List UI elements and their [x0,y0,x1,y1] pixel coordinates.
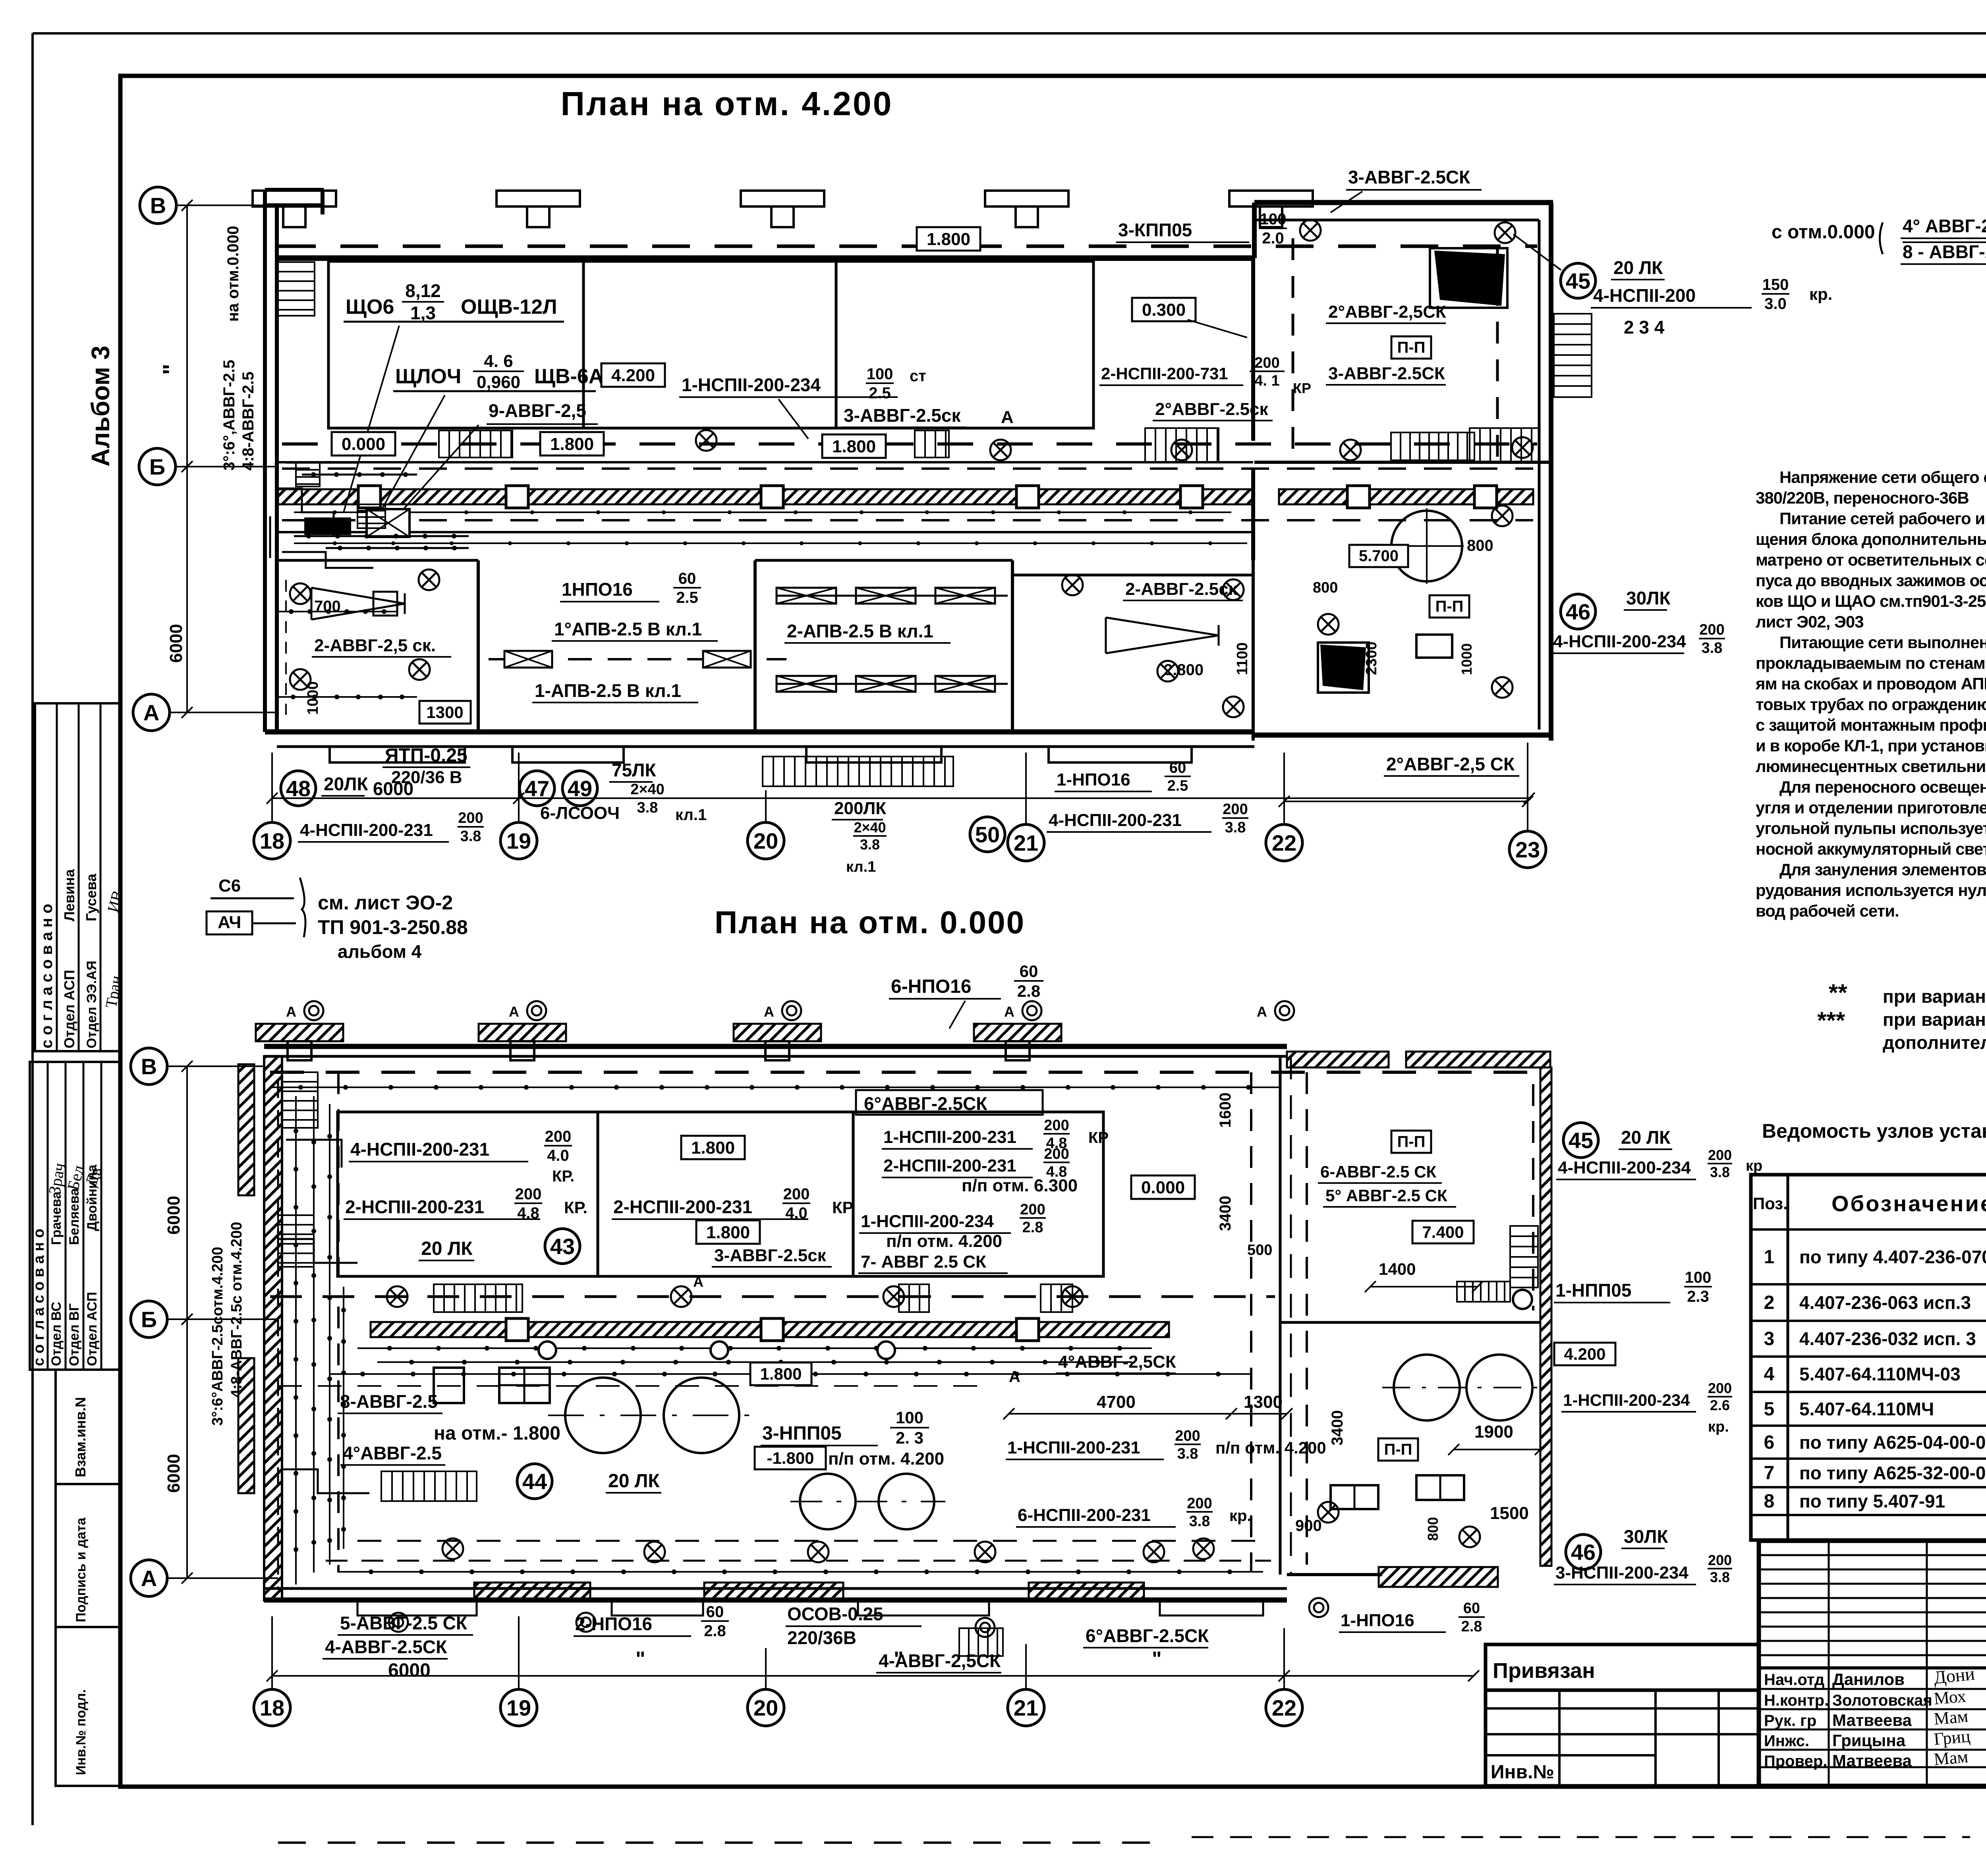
svg-text:1-НСПII-200-234: 1-НСПII-200-234 [682,374,821,395]
svg-text:Грачева: Грачева [49,1191,64,1245]
svg-text:200: 200 [1044,1117,1069,1134]
plan 0.000: small grille bottom [959,1628,1003,1656]
axis circle А (plan 4.200) [133,694,170,731]
svg-text:5.407-64.110МЧ-03: 5.407-64.110МЧ-03 [1799,1364,1961,1384]
svg-text:1000: 1000 [305,681,321,715]
svg-text:см. лист ЭО-2: см. лист ЭО-2 [318,892,453,914]
svg-text:6000: 6000 [164,1454,184,1493]
привязан box [1486,1644,1759,1690]
room45 inner dashed partition [1293,238,1497,461]
label 6°АВВГ-2.5СК (top run) [856,1090,1043,1115]
axis circle 46 label [1561,594,1596,629]
svg-text:3°:6°,АВВГ-2.5: 3°:6°,АВВГ-2.5 [220,360,238,471]
svg-text:АЧ: АЧ [218,913,241,932]
svg-text:46: 46 [1571,1540,1596,1565]
svg-text:Взам.инв.N: Взам.инв.N [72,1397,89,1477]
svg-text:2°АВВГ-2,5СК: 2°АВВГ-2,5СК [1328,302,1446,322]
label 9-АВВГ-2,5 ск [487,400,598,446]
label ЩО6 8,12/1,3 ОЩВ-12Л [344,280,564,323]
svg-text:с отм.0.000: с отм.0.000 [1772,222,1875,243]
svg-text:1-НСПII-200-231: 1-НСПII-200-231 [1007,1438,1140,1457]
svg-text:3-АВВГ-2.5ск: 3-АВВГ-2.5ск [844,405,961,426]
svg-text:2-НСПII-200-231: 2-НСПII-200-231 [345,1197,484,1217]
svg-text:3400: 3400 [1217,1196,1234,1231]
plan 0.000 wing: dashed inner [1307,1072,1533,1565]
svg-text:кл.1: кл.1 [675,806,707,824]
rotated feeder labels at left wall [220,226,257,471]
svg-text:А: А [1004,1004,1014,1020]
plan 0.000: top dashed wiring run [270,1072,1537,1090]
svg-text:ОЩВ-12Л: ОЩВ-12Л [461,295,557,318]
boxed 4.200 (wing) [1554,1343,1615,1365]
label 75ЛК 2x40 [609,760,665,816]
svg-text:кр.: кр. [1809,285,1832,303]
svg-text:КР: КР [1293,380,1311,396]
svg-text:1000: 1000 [1459,643,1475,675]
label 1-НСПII-200-231 200/4.8 КР (43r) [882,1117,1109,1152]
axis circle 22 (plan 4.200) [1266,824,1302,861]
plan 0.000: mid grilles [434,1284,1072,1312]
svg-text:45: 45 [1569,1128,1593,1153]
svg-text:Нач.отд: Нач.отд [1764,1671,1824,1689]
svg-text:2×40: 2×40 [854,819,886,836]
room 51 lamps [1062,575,1244,717]
svg-text:900: 900 [1295,1517,1322,1534]
svg-text:200: 200 [1254,355,1279,371]
svg-text:4:8-АВВГ-2.5с отм.4.200: 4:8-АВВГ-2.5с отм.4.200 [228,1222,245,1398]
svg-text:60: 60 [1169,760,1186,776]
stair grille right wing [1470,428,1539,462]
svg-text:С6: С6 [218,876,241,896]
svg-text:4-НСПII-200: 4-НСПII-200 [1593,285,1696,306]
wing divider mid [1280,1321,1540,1324]
svg-text:Б: Б [141,1307,157,1332]
svg-text:100: 100 [1260,210,1287,228]
margin lower rotated: Отдел АСП Двойнина [85,1164,100,1366]
привязан grid [1486,1690,1759,1786]
svg-text:2 3 4: 2 3 4 [1624,317,1665,338]
svg-text:5.407-64.110МЧ: 5.407-64.110МЧ [1799,1399,1934,1419]
svg-text:46: 46 [1566,599,1590,624]
svg-text:4-НСПII-200-234: 4-НСПII-200-234 [1558,1158,1691,1177]
svg-text:КР: КР [1088,1129,1109,1146]
axis leader А [170,712,278,713]
plan 0.000: vertical dim 6000 x2 [164,1061,193,1584]
svg-text:угольной пульпы используется п: угольной пульпы используется пере- [1756,819,1986,838]
label 4-НСПII-200-231 200/3.8 (left) [298,810,484,845]
axis circle В (plan 4.200) [140,187,176,224]
svg-text:2.3: 2.3 [1687,1288,1709,1305]
svg-text:2°АВВГ-2,5 СК: 2°АВВГ-2,5 СК [1386,754,1515,774]
svg-text:1400: 1400 [1379,1260,1416,1278]
svg-text:3.0: 3.0 [1764,295,1787,313]
axis circle 49 [562,771,597,806]
boxed П-П (wing lower) [1378,1438,1418,1461]
svg-text:1-НСПII-200-234: 1-НСПII-200-234 [861,1212,994,1231]
svg-text:Гриц: Гриц [1933,1726,1971,1749]
svg-text:3.8: 3.8 [460,828,481,845]
svg-text:8 - АВВГ-2.5: 8 - АВВГ-2.5 [1903,241,1986,262]
svg-text:700: 700 [314,598,341,615]
svg-text:П-П: П-П [1435,598,1464,615]
plan 4.200: small porch rects below wall [330,747,1192,762]
svg-text:19: 19 [506,1695,531,1720]
svg-text:2.0: 2.0 [1262,230,1284,247]
svg-text:18: 18 [260,1695,284,1720]
boxed 7.400 [1412,1221,1474,1243]
svg-text:19: 19 [506,828,531,853]
svg-text:75ЛК: 75ЛК [612,760,656,780]
svg-text:49: 49 [568,776,592,801]
svg-text:3°:6°АВВГ-2.5сотм.4.200: 3°:6°АВВГ-2.5сотм.4.200 [209,1247,226,1426]
svg-text:8: 8 [1764,1491,1775,1512]
svg-text:0,960: 0,960 [477,372,520,392]
plan 0.000: top wall [264,1046,1287,1056]
svg-text:2-АПВ-2.5 В кл.1: 2-АПВ-2.5 В кл.1 [787,621,933,641]
svg-text:6: 6 [1764,1432,1775,1453]
svg-text:кр.: кр. [1229,1507,1252,1525]
svg-text:Для переносного освещения в ск: Для переносного освещения в складе [1779,778,1986,796]
svg-text:3.8: 3.8 [1710,1569,1730,1585]
svg-text:Для зануления элементов электр: Для зануления элементов электробо [1779,860,1986,879]
room46 tank circle [1391,511,1462,581]
plan 0.000: lower-left grille [381,1471,477,1501]
svg-text:20: 20 [753,1695,778,1720]
plan 4.200: room 48 lamps [290,569,439,690]
svg-text:ЯТП-0.25: ЯТП-0.25 [385,745,468,766]
svg-text:8-АВВГ-2.5: 8-АВВГ-2.5 [340,1391,438,1412]
svg-text:В: В [150,193,166,218]
svg-text:20 ЛК: 20 ЛК [421,1238,473,1259]
svg-text:2-АВВГ-2.5ск: 2-АВВГ-2.5ск [1125,579,1238,599]
svg-text:1.800: 1.800 [691,1138,735,1158]
svg-text:А: А [141,1566,157,1591]
svg-text:люминесцентных светильников.: люминесцентных светильников. [1756,757,1986,776]
svg-text:Альбом 3: Альбом 3 [86,345,115,467]
svg-text:Привязан: Привязан [1493,1659,1595,1683]
svg-text:1600: 1600 [1217,1092,1234,1128]
svg-text:200: 200 [1708,1552,1732,1568]
wing lower crates [1331,1475,1464,1509]
svg-text:800: 800 [1467,537,1493,554]
svg-text:с о г л а с о в а н о: с о г л а с о в а н о [31,1229,47,1366]
svg-text:3.8: 3.8 [1177,1446,1198,1462]
svg-text:Мам: Мам [1933,1706,1969,1729]
svg-text:3-АВВГ-2.5СК: 3-АВВГ-2.5СК [1328,364,1445,383]
svg-text:рудования используется нулевой: рудования используется нулевой про- [1756,881,1986,899]
svg-text:2. 3: 2. 3 [896,1428,923,1447]
room45 lamps [1300,220,1533,458]
plan 0.000: rotated feeder labels [209,1222,245,1426]
axis circle 20 (plan 4.200) [748,822,784,859]
svg-text:КР.: КР. [832,1198,856,1217]
room46 small rect [1416,635,1452,658]
plan 4.200: outer wall left [265,190,324,732]
label 1-НПО16 60/2.5 (right) [1055,760,1191,794]
stair grille mid 3 [1145,428,1219,462]
svg-text:200: 200 [458,810,483,826]
axis circle 43 (room) [545,1229,580,1264]
label 1-НСПII-200-234 100/2.5 ст [679,365,926,439]
boxed 1300 [419,701,471,724]
svg-text:7: 7 [1764,1463,1775,1484]
svg-text:30ЛК: 30ЛК [1626,588,1671,608]
svg-text:22: 22 [1272,1695,1296,1720]
plan 0.000: central hatched channel [371,1318,1169,1341]
svg-text:1.800: 1.800 [550,434,594,454]
stair grille mid 2 [915,430,949,457]
svg-text:3400: 3400 [1329,1410,1346,1446]
svg-text:3.8: 3.8 [860,836,880,853]
svg-text:4:8-АВВГ-2.5: 4:8-АВВГ-2.5 [240,372,257,471]
svg-text:2-НСПII-200-231: 2-НСПII-200-231 [883,1156,1016,1175]
label НПО16 60/2.5 [560,570,701,606]
svg-text:4°АВВГ-2.5: 4°АВВГ-2.5 [343,1443,442,1463]
dim 4700/1300 [1003,1392,1292,1419]
svg-text:А: А [1001,407,1014,427]
boxed level 0.000 (plan 4.200) [332,432,395,455]
svg-text:Отдел ВС: Отдел ВС [49,1302,64,1366]
svg-text:1-АПВ-2.5 В кл.1: 1-АПВ-2.5 В кл.1 [535,680,681,701]
plan 4.200: lower grille under wall [763,757,953,786]
plan 0.000: bottom wall [264,1583,1287,1600]
room45 wedge outline [1430,248,1507,308]
plan 0.000: top hatched column bars [256,1024,1061,1060]
margin box Взам.инв.N [56,1370,120,1484]
svg-text:План на отм. 4.200: План на отм. 4.200 [561,85,893,122]
room 49-50 fluorescent row 1 [777,588,1008,604]
plan 4.200: left zone wiring jumble [270,463,469,568]
svg-text:Левина: Левина [61,869,77,921]
room46 black wedge [1320,645,1366,690]
svg-text:угля и отделении приготовления: угля и отделении приготовления [1756,798,1986,817]
svg-text:1300: 1300 [1244,1392,1283,1412]
svg-text:при варианте с блоком дополнит: при варианте с блоком дополнительных реа… [1883,986,1986,1007]
plan 0.000: room 43 block [338,1112,1103,1276]
svg-text:5.700: 5.700 [1359,547,1399,565]
svg-text:2×40: 2×40 [630,781,665,798]
corridor dashed run with fixtures [489,651,786,668]
svg-text:матрено от осветительных сетей: матрено от осветительных сетей главного … [1756,550,1986,569]
margin upper block frame (согласовано отделы) [35,703,120,1051]
svg-text:-1.800: -1.800 [767,1449,814,1467]
dim line right wing bottom [1284,801,1528,802]
axis circle 50 (room) [970,817,1005,852]
svg-text:1900: 1900 [1474,1422,1513,1442]
svg-text:А: А [1257,1004,1267,1020]
plan 0.000: axis 22 [1266,1689,1302,1726]
room 51 funnel [1106,618,1219,653]
leader 45 [1513,234,1561,270]
wing tanks [1382,1355,1541,1421]
svg-text:200: 200 [1708,1147,1732,1163]
boxed -1.800 + п/п отм.4.200 [755,1447,944,1469]
svg-text:21: 21 [1014,1695,1038,1720]
svg-text:20 ЛК: 20 ЛК [1621,1127,1671,1148]
stamp names [1764,1670,1932,1770]
axis circle 19 (plan 4.200) [500,822,537,859]
svg-text:ям на скобах и проводом АПВ-В: ям на скобах и проводом АПВ-В винипласт. [1755,674,1986,693]
label 2-НСПII-200-231 200/4.8 КР. (43) [344,1185,587,1222]
svg-text:2300: 2300 [1363,641,1380,675]
svg-text:при варианте с блоком микро: при варианте с блоком микрофильтров и бл… [1883,1009,1986,1030]
svg-text:3-АВВГ-2.5ск: 3-АВВГ-2.5ск [714,1246,827,1265]
svg-text:1°АПВ-2.5 В кл.1: 1°АПВ-2.5 В кл.1 [554,619,702,639]
boxed 1.800 (mid) [750,1363,811,1385]
svg-text:Грицына: Грицына [1832,1731,1906,1750]
plan 4.200: right wing outline [1254,203,1553,741]
svg-text:Матвеева: Матвеева [1832,1711,1912,1729]
label с отм.0.000 feeder [1772,216,1986,264]
label 3-КПП05 100/2.0 [1116,210,1287,247]
svg-text:носной аккумуляторный светильн: носной аккумуляторный светильник. [1756,840,1986,858]
svg-text:Мох: Мох [1933,1686,1967,1708]
plan 4.200: room 48 funnel [311,588,405,620]
margin upper signatures [102,888,127,1009]
margin lower block frame (согласовано) [30,1062,120,1370]
svg-text:4°АВВГ-2,5СК: 4°АВВГ-2,5СК [1058,1352,1176,1372]
svg-text:прокладываемым по стенам и пер: прокладываемым по стенам и перекрыти- [1756,654,1986,672]
boxed level 1.800 b [822,434,886,458]
svg-text:вод рабочей сети.: вод рабочей сети. [1756,901,1899,920]
svg-text:3-НПП05: 3-НПП05 [762,1423,842,1444]
svg-text:50: 50 [975,822,1000,847]
label 1900 (wing) [1448,1422,1546,1455]
svg-text:4-НСПII-200-234: 4-НСПII-200-234 [1553,632,1686,651]
svg-text:1: 1 [1764,1247,1775,1268]
svg-text:П-П: П-П [1397,339,1426,356]
svg-text:Отдел АСП: Отдел АСП [85,1292,100,1366]
svg-text:6-АВВГ-2.5 СК: 6-АВВГ-2.5 СК [1320,1162,1437,1181]
svg-text:2-НСПII-200-231: 2-НСПII-200-231 [613,1197,752,1217]
svg-text:2.6: 2.6 [1710,1397,1730,1413]
svg-text:6000: 6000 [373,778,413,799]
svg-text:Данилов: Данилов [1832,1670,1905,1689]
svg-text:2.8: 2.8 [1461,1618,1482,1635]
svg-text:60: 60 [1020,962,1038,980]
svg-text:47: 47 [525,776,549,801]
plan 0.000: bottom dim line [272,1675,1284,1677]
svg-text:2.8: 2.8 [1022,1219,1043,1236]
axis circle 47 [520,771,554,806]
svg-text:на отм.0.000: на отм.0.000 [224,226,242,322]
svg-text:2: 2 [1764,1292,1775,1313]
plan 0.000: tanks small [790,1474,945,1529]
axis circle 46 (plan 0.000) [1566,1534,1601,1569]
svg-text:4. 6: 4. 6 [484,351,513,371]
svg-text:1НПО16: 1НПО16 [562,579,633,600]
svg-text:ЩО6: ЩО6 [346,295,394,318]
label ЯТП-0.25 220/36 В [383,745,470,787]
svg-text:по типу 5.407-91: по типу 5.407-91 [1799,1491,1945,1511]
svg-text:План на отм. 0.000: План на отм. 0.000 [715,905,1025,940]
plan 0.000: porch rects below bottom wall [357,1601,1263,1615]
plan 4.200: outside stairs right of wing [1554,314,1592,397]
room 49-50 fluorescent row 2 [777,676,1008,692]
label 4-НСПII-200-234 200/3.8 (46) [1551,621,1725,656]
svg-text:200: 200 [1020,1201,1045,1218]
plan 0.000 wing: partition and walls [1280,1052,1551,1587]
svg-text:2.8: 2.8 [704,1622,726,1640]
svg-text:1.800: 1.800 [760,1365,802,1383]
margin lower signatures [46,1162,106,1196]
boxed level 4.200 [601,363,665,387]
svg-text:2-НПО16: 2-НПО16 [575,1614,652,1634]
svg-text:***: *** [1817,1007,1845,1034]
svg-text:**: ** [1829,979,1847,1006]
svg-text:Золотовская: Золотовская [1832,1692,1932,1709]
svg-text:6000: 6000 [388,1660,431,1681]
svg-text:ст: ст [910,367,926,385]
svg-text:А: А [1009,1368,1020,1386]
plan 0.000: bottom wiring jumble [326,1561,1271,1574]
svg-text:200ЛК: 200ЛК [834,799,886,818]
svg-text:2.8: 2.8 [1017,982,1040,1000]
boxed level 1.800 a [540,432,604,455]
margin box Инв.№ подл. [56,1627,120,1786]
label 1400 (wing) [1365,1260,1483,1292]
label 6-НПО16 60/2.8 (top) [889,962,1043,1029]
svg-text:200: 200 [1223,801,1248,818]
plan 0.000: junction circles on channel [539,1341,895,1359]
svg-text:на отм.- 1.800: на отм.- 1.800 [434,1423,560,1444]
svg-text:6-ЛСООЧ: 6-ЛСООЧ [540,803,620,823]
svg-text:200: 200 [1187,1495,1212,1512]
label 1-НСПII-200-234 200/2.8 [859,1201,1046,1236]
svg-text:4.200: 4.200 [1564,1345,1605,1363]
svg-text:1300: 1300 [426,703,463,722]
plan 0.000: left wiring risers [278,1080,369,1588]
svg-text:200: 200 [1708,1380,1732,1396]
svg-text:3.8: 3.8 [1225,819,1246,836]
svg-text:ков ЩО и ЩАО см.тп901-3-250.88: ков ЩО и ЩАО см.тп901-3-250.88 Альбом 4 [1756,592,1986,610]
plan 0.000: ditto marks on dim [636,1648,1162,1671]
margin upper text: Отдел АСП Левина [61,869,77,1048]
svg-text:22: 22 [1272,830,1296,855]
svg-text:3.8: 3.8 [1702,640,1723,656]
vertical dim line with 6000 labels (plan 4.200) [158,200,193,718]
svg-text:Ведомость узлов установки эл: Ведомость узлов установки электрического… [1762,1120,1986,1142]
svg-text:2-НСПII-200-731: 2-НСПII-200-731 [1101,364,1228,383]
plan 0.000: axis leaders [272,1616,1284,1690]
svg-text:по типу А625-04-00-00: по типу А625-04-00-00 [1799,1432,1986,1453]
label 1-НПП05 100/2.3 (wing) [1554,1269,1712,1305]
plan 0.000: roof lamps above top wall [286,1001,1294,1020]
boxed 5.700 [1349,545,1408,567]
svg-text:Питание сетей рабочего и авари: Питание сетей рабочего и аварийного осве [1779,509,1986,528]
svg-text:200: 200 [1175,1428,1200,1444]
axis circle 23 (plan 4.200) [1509,831,1546,868]
plan 4.200: lower rooms partitions [277,560,1253,741]
svg-text:20 ЛК: 20 ЛК [1613,257,1663,278]
svg-text:5: 5 [1764,1399,1775,1420]
svg-text:п/п отм. 6.300: п/п отм. 6.300 [962,1176,1078,1195]
svg-text:В: В [141,1054,157,1079]
wing lamp at stairs [1513,1290,1532,1309]
boxed 1.800 (43a) [681,1136,745,1159]
axis leader Б [176,466,278,467]
axis circle 21 (plan 4.200) [1008,824,1044,861]
svg-text:Беляева: Беляева [67,1188,82,1245]
label 200ЛК 2x40 3.8 кл.1 [832,799,887,875]
svg-text:200: 200 [783,1185,810,1203]
svg-text:2.5: 2.5 [869,384,891,402]
svg-text:товых трубах по ограждению пло: товых трубах по ограждению площадки [1756,695,1986,714]
svg-text:1-НПО16: 1-НПО16 [1341,1611,1414,1630]
svg-text:1-НСПII-200-231: 1-НСПII-200-231 [883,1127,1016,1147]
svg-text:4-НСПII-200-231: 4-НСПII-200-231 [1049,811,1182,830]
vertical leaders to axis circles [272,743,1528,832]
